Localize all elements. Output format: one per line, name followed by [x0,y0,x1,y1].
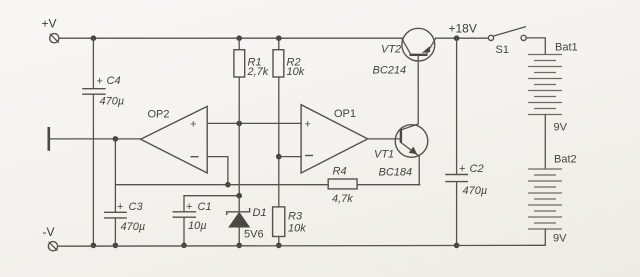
wire: C3 bottom lead [114,218,116,246]
switch S1 [488,27,526,41]
svg-text:5V6: 5V6 [244,229,264,241]
wire: C2 column upper [456,38,458,174]
wire: regulated line to R4 [115,184,328,186]
wire: zener node line [184,195,239,197]
zener diode D1 [227,196,251,246]
svg-text:D1: D1 [253,207,267,219]
wire: R1 top lead [238,38,240,50]
wire: top +V rail [59,37,403,39]
svg-text:470µ: 470µ [100,96,125,108]
node: +18V junction [454,35,460,41]
wire: OP2 out column down to C3 [114,139,116,212]
wire: S1 to Bat1 [526,38,545,55]
svg-text:OP2: OP2 [148,109,170,121]
-V terminal [48,242,57,251]
svg-text:+: + [117,201,123,213]
svg-text:+: + [459,163,465,175]
capacitor C3 [104,212,127,218]
svg-text:+: + [186,201,192,213]
svg-text:9V: 9V [554,122,568,134]
node: feedback to R4 line junction [225,182,231,188]
resistor R4 [328,179,357,189]
battery Bat1 [529,55,562,115]
wire: OP1 output to VT1 base [368,138,400,140]
svg-text:C3: C3 [129,201,144,213]
svg-text:BC214: BC214 [373,65,407,77]
node: C4 bottom junction [91,243,97,249]
svg-text:Bat2: Bat2 [554,154,577,166]
wire: Bat1 to Bat2 [544,115,546,170]
node: OP2 output junction [113,136,119,142]
svg-text:Bat1: Bat1 [555,42,578,54]
wire: R2 top lead [278,38,280,50]
svg-text:10k: 10k [288,222,306,234]
wire: VT2 emitter to +18V node [436,37,489,39]
svg-text:4,7k: 4,7k [332,193,353,205]
wire: R4 right lead to VT1 emitter [357,184,420,186]
wire: Bat2 bottom lead [544,229,546,245]
svg-text:C1: C1 [198,201,212,213]
svg-text:470µ: 470µ [121,221,146,233]
wire: OP2 + input to OP1 + input [207,122,301,124]
wire: VT1 collector up to VT2 base [417,55,419,124]
svg-text:+: + [97,76,103,88]
svg-text:R3: R3 [288,211,303,223]
wire: C2 column lower [456,182,458,246]
op-amp OP2 [141,106,208,173]
wire: R3 bottom lead [278,237,280,246]
svg-text:+18V: +18V [449,22,477,36]
wire: OP2 - feedback down [227,157,229,185]
svg-text:OP1: OP1 [334,108,356,120]
resistor R2 [273,50,284,77]
svg-text:S1: S1 [496,44,509,56]
svg-text:+: + [190,119,196,131]
svg-text:C4: C4 [107,75,121,87]
node: R1 top junction [236,35,242,41]
svg-text:+: + [305,119,311,131]
svg-text:10µ: 10µ [188,220,207,232]
wire: input to OP2 [49,138,141,140]
input bar terminal [47,127,50,151]
wire: R2 bottom lead down to R3 [278,77,280,207]
svg-text:R4: R4 [333,166,347,178]
battery Bat2 [529,169,562,229]
node: R2/R3 to OP1 - junction [276,154,282,160]
node: D1 bottom junction [236,243,242,249]
svg-text:470µ: 470µ [463,185,488,197]
wire: C4 column lower [92,94,94,245]
wire: R1 bottom lead down to zener node [238,77,240,196]
wire: bottom -V rail [58,244,546,247]
node: R3 bottom junction [276,243,282,249]
wire: OP2 - feedback right [207,156,228,158]
svg-text:BC184: BC184 [379,167,413,179]
node: R2 top junction [276,35,282,41]
svg-text:-V: -V [43,225,55,239]
node: C3 bottom junction [113,243,119,249]
capacitor C2 [445,175,468,182]
transistor VT2 [402,28,436,61]
wire: C1 top stub [183,196,185,212]
wire: C1 bottom lead [183,217,185,245]
resistor R3 [273,207,285,237]
capacitor C1 [173,212,197,217]
wire: OP1 - input [279,156,301,158]
node: C1 bottom junction [181,243,187,249]
transistor VT1 [395,124,428,157]
node: C2 bottom junction [454,243,460,249]
svg-text:2,7k: 2,7k [247,66,269,78]
node: R1 / OP inputs junction [236,121,242,127]
svg-text:+V: +V [42,17,57,31]
svg-text:C2: C2 [470,163,484,175]
op-amp OP1 [301,105,368,173]
resistor R1 [234,50,245,77]
node: C4 top junction [91,35,97,41]
svg-text:10k: 10k [287,66,305,78]
wire: VT1 emitter down [418,156,420,185]
svg-text:VT1: VT1 [374,149,394,161]
wire: C4 column upper [92,38,94,88]
svg-text:9V: 9V [553,233,567,245]
svg-text:VT2: VT2 [381,44,401,56]
node: zener / R1 / D1 junction [236,193,242,199]
+V terminal [50,34,59,43]
capacitor C4 [82,89,106,95]
